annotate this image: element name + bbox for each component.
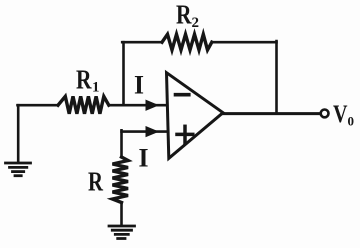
wire: feedback right vertical to output [275, 41, 278, 114]
output terminal circle [321, 110, 329, 118]
svg-text:R: R [76, 65, 92, 95]
svg-text:R: R [176, 0, 192, 30]
wire: feedback top left segment [122, 41, 162, 44]
op-amp U1 [167, 73, 224, 159]
svg-text:I: I [139, 144, 149, 173]
svg-text:V: V [333, 101, 348, 128]
ground (bottom) [109, 226, 135, 239]
current arrow I (non-inverting input) [146, 127, 158, 137]
svg-text:2: 2 [192, 15, 200, 31]
svg-text:1: 1 [92, 80, 100, 96]
resistor R1 [58, 96, 109, 113]
svg-text:I: I [134, 71, 144, 100]
op-amp minus sign [176, 93, 189, 97]
wire: feedback left vertical [122, 42, 125, 105]
svg-text:0: 0 [348, 114, 355, 129]
wire: non-inverting input segment [122, 130, 167, 133]
wire: input horizontal right segment to op-amp [109, 104, 167, 107]
wire: vertical from + input down to resistor R [120, 130, 123, 157]
resistor R2 [162, 34, 212, 50]
wire: left vertical to ground [17, 105, 20, 162]
op-amp plus sign [177, 126, 193, 142]
wire: input horizontal left segment [18, 104, 59, 107]
ground (left) [6, 163, 31, 176]
wire: resistor R to ground [120, 203, 123, 226]
wire: output horizontal [222, 112, 320, 115]
resistor R (vertical) [113, 157, 129, 203]
svg-text:R: R [88, 167, 103, 197]
wire: feedback top right segment [212, 41, 277, 44]
current arrow I (inverting input) [146, 100, 158, 110]
